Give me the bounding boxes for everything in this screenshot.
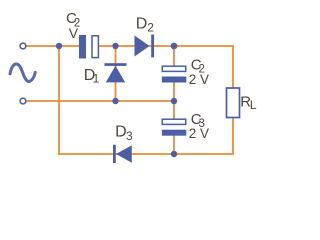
wire left vertical branch from top rail down to bottom rail: [58, 46, 60, 155]
svg-text:2 V: 2 V: [189, 72, 209, 87]
node junction at C2/C3 middle: [171, 98, 177, 104]
svg-text:2 V: 2 V: [189, 126, 209, 141]
wire bottom rail through D3: [59, 153, 234, 155]
diode D3 triangle: [116, 145, 132, 163]
capacitor C2 shunt bottom plate (solid): [162, 77, 186, 83]
node junction at D1 top: [112, 43, 118, 49]
diode D2 cathode bar: [151, 35, 154, 58]
node junction at C2 shunt top: [171, 43, 178, 50]
diode D1 cathode bar: [105, 63, 127, 66]
svg-text:3: 3: [126, 129, 133, 143]
capacitor C2 series left plate (solid): [79, 35, 86, 59]
diode D3 cathode bar: [113, 145, 116, 163]
svg-text:D: D: [136, 15, 148, 32]
wire C2 shunt branch lower: [173, 82, 175, 101]
node junction at D1 bottom: [112, 98, 118, 104]
terminal lower input: [20, 98, 26, 104]
wire D1 branch vertical: [115, 46, 117, 101]
ac source sine symbol: [10, 64, 35, 81]
capacitor C3 bottom plate (solid): [162, 130, 186, 136]
svg-text:2: 2: [147, 20, 154, 34]
node junction at C3 bottom on rail: [171, 151, 177, 157]
diode D2 triangle: [135, 36, 150, 57]
svg-text:V: V: [69, 25, 79, 41]
wire RL bottom down to bottom rail: [232, 118, 234, 155]
diode D1 triangle: [106, 66, 125, 83]
wire C2 shunt branch upper: [173, 46, 175, 66]
terminal upper input: [20, 43, 26, 49]
wire right side down to RL top: [232, 45, 234, 87]
wire C3 branch lower: [173, 136, 175, 155]
svg-text:D: D: [115, 124, 127, 141]
svg-text:1: 1: [93, 72, 100, 86]
resistor RL (load) box: [227, 88, 240, 118]
wire C3 branch upper: [173, 101, 175, 119]
svg-text:L: L: [250, 98, 257, 112]
wire top rail from input terminal to series capacitor: [26, 45, 79, 47]
capacitor C2 series right plate (hollow): [92, 36, 98, 58]
wire series capacitor through D2 to top-right corner: [99, 45, 233, 47]
capacitor C3 top plate (hollow): [162, 119, 185, 124]
node junction at left branch top: [56, 43, 62, 49]
wire middle rail from lower terminal to C2/C3 junction: [26, 100, 174, 102]
capacitor C2 shunt top plate (hollow): [162, 66, 185, 71]
